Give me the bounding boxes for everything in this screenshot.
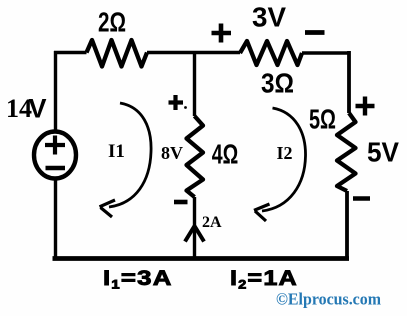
svg-text:5Ω: 5Ω (309, 104, 336, 135)
svg-text:2A: 2A (202, 214, 222, 231)
svg-text:3V: 3V (252, 2, 286, 33)
svg-text:5V: 5V (367, 137, 399, 168)
svg-text:3Ω: 3Ω (261, 68, 294, 99)
svg-text:©Elprocus.com: ©Elprocus.com (276, 290, 381, 309)
svg-text:V: V (29, 94, 47, 124)
svg-text:2Ω: 2Ω (98, 7, 126, 38)
svg-text:I1: I1 (108, 141, 125, 162)
svg-text:4Ω: 4Ω (212, 139, 239, 170)
svg-text:I2: I2 (277, 143, 293, 163)
svg-text:8V: 8V (161, 143, 183, 163)
